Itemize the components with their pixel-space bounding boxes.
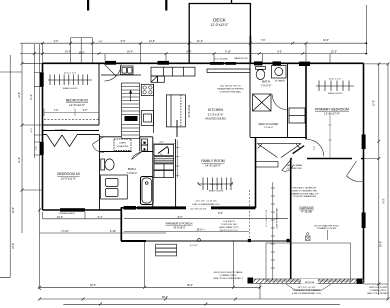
svg-text:3'-0": 3'-0" <box>314 146 316 151</box>
svg-text:41'-0": 41'-0" <box>197 40 203 43</box>
svg-text:DECK: DECK <box>213 18 227 23</box>
svg-text:8'-0": 8'-0" <box>178 216 183 219</box>
svg-text:SHELF & ROD: SHELF & ROD <box>63 88 78 90</box>
svg-text:7'-0"x9'-0": 7'-0"x9'-0" <box>126 172 137 175</box>
svg-text:60'-0": 60'-0" <box>162 296 168 299</box>
svg-text:EGRESS 8400 B: EGRESS 8400 B <box>59 213 75 215</box>
svg-text:12'-0"x12'-0": 12'-0"x12'-0" <box>211 23 229 27</box>
svg-text:LINE OF BREEZEWAY: LINE OF BREEZEWAY <box>276 207 279 228</box>
svg-text:FAMILY ROOM: FAMILY ROOM <box>201 159 224 163</box>
svg-text:24'-0": 24'-0" <box>12 207 15 213</box>
svg-text:36'-0" +-: 36'-0" +- <box>197 229 206 232</box>
svg-text:(LINE OF BREEZEWAY O.H.): (LINE OF BREEZEWAY O.H.) <box>292 292 321 295</box>
svg-text:CASE TO REAR: CASE TO REAR <box>286 164 303 167</box>
svg-text:10'-0": 10'-0" <box>78 52 84 55</box>
svg-text:16'-4": 16'-4" <box>127 51 133 54</box>
svg-text:LINEN: LINEN <box>119 143 126 145</box>
svg-text:(2) 1 3/4"x14" LVL: (2) 1 3/4"x14" LVL <box>190 209 207 211</box>
svg-text:36" VANITY: 36" VANITY <box>275 79 286 82</box>
svg-text:7'-6"x7'-0": 7'-6"x7'-0" <box>261 84 272 87</box>
svg-text:(SEE "POLE DETAIL"): (SEE "POLE DETAIL") <box>367 292 389 295</box>
svg-text:42'-0"x8'-0": 42'-0"x8'-0" <box>173 226 185 229</box>
svg-text:4'-0": 4'-0" <box>31 128 33 133</box>
svg-text:BARN DOOR: BARN DOOR <box>234 57 248 60</box>
svg-text:3'-0": 3'-0" <box>83 109 88 112</box>
svg-text:OVERSIZED 9'X8' FRAMED: OVERSIZED 9'X8' FRAMED <box>293 289 321 292</box>
svg-text:TOWARDS DOORS: TOWARDS DOORS <box>317 227 337 230</box>
svg-text:14'-0": 14'-0" <box>65 51 71 54</box>
svg-text:12'-6": 12'-6" <box>18 92 21 98</box>
svg-text:7'-6": 7'-6" <box>54 109 59 112</box>
svg-text:SHARED HOUSE WALL UP: SHARED HOUSE WALL UP <box>291 192 319 195</box>
svg-text:-13'-1 1/2" + 4'-10 1/2"-: -13'-1 1/2" + 4'-10 1/2"- <box>195 201 218 203</box>
svg-text:5 SHELVES: 5 SHELVES <box>117 146 129 148</box>
svg-text:5'-4": 5'-4" <box>98 216 103 219</box>
svg-text:PROVIDE 1 LAYER 5/8": PROVIDE 1 LAYER 5/8" <box>293 187 317 190</box>
svg-text:22'-0": 22'-0" <box>331 51 337 54</box>
svg-text:(2) 1 3/4"x11 7/8" LVL: (2) 1 3/4"x11 7/8" LVL <box>220 86 242 88</box>
svg-text:4'-1 1/2": 4'-1 1/2" <box>190 245 198 247</box>
svg-text:2'-8": 2'-8" <box>36 146 38 151</box>
svg-text:8'-0": 8'-0" <box>277 51 282 54</box>
svg-text:BEDROOM #3: BEDROOM #3 <box>57 172 79 176</box>
svg-text:AZEK WRAP (TYP): AZEK WRAP (TYP) <box>219 226 238 229</box>
svg-text:CLOSET: CLOSET <box>55 128 66 132</box>
svg-text:9'-0": 9'-0" <box>383 198 386 203</box>
svg-text:HEADER ABOVE RIPPED: HEADER ABOVE RIPPED <box>218 88 244 91</box>
svg-text:11'-1 1/2" x 8'-1 1/2": 11'-1 1/2" x 8'-1 1/2" <box>266 209 268 227</box>
svg-text:L (4) 6X6 PT: L (4) 6X6 PT <box>223 221 236 223</box>
svg-text:4'-10": 4'-10" <box>225 51 231 54</box>
svg-text:(SEE "POLE DOWN DETAIL"): (SEE "POLE DOWN DETAIL") <box>213 277 243 280</box>
svg-text:BATH: BATH <box>128 167 136 171</box>
svg-text:4'-6": 4'-6" <box>98 41 103 43</box>
svg-text:8'-0": 8'-0" <box>218 212 223 215</box>
svg-text:36'-0": 36'-0" <box>187 284 193 287</box>
svg-text:4" SLAB: 4" SLAB <box>301 209 312 213</box>
svg-text:30'-0": 30'-0" <box>90 284 96 287</box>
svg-text:FARMER'S PORCH: FARMER'S PORCH <box>166 222 193 226</box>
svg-text:12'-0" x 2'-0": 12'-0" x 2'-0" <box>64 73 76 75</box>
svg-text:SHELF & ROD: SHELF & ROD <box>209 191 224 193</box>
svg-text:12'-0"x11'-6": 12'-0"x11'-6" <box>61 177 76 181</box>
svg-text:GWB "X" FINISHED THE: GWB "X" FINISHED THE <box>292 190 317 192</box>
svg-text:11'-0": 11'-0" <box>30 94 33 100</box>
svg-text:14'-6" x 2'-0": 14'-6" x 2'-0" <box>210 184 222 186</box>
svg-text:NOTE B4: NOTE B4 <box>305 282 315 284</box>
svg-text:POSTS W/ 1X8: POSTS W/ 1X8 <box>221 224 237 226</box>
svg-text:12'-0"x12'-6": 12'-0"x12'-6" <box>69 103 85 107</box>
svg-text:14'-6"x18'-0": 14'-6"x18'-0" <box>205 164 221 168</box>
svg-text:6'-0" SLIDER: 6'-0" SLIDER <box>215 58 228 60</box>
svg-text:7'-6": 7'-6" <box>261 39 266 42</box>
svg-text:15'-6" x 2'-0": 15'-6" x 2'-0" <box>329 79 341 81</box>
svg-text:CORNER (2X10): CORNER (2X10) <box>370 290 387 292</box>
svg-text:21'-0"x13'-6": 21'-0"x13'-6" <box>208 113 224 117</box>
svg-text:LINE OF BREEZEWAY O.H.: LINE OF BREEZEWAY O.H. <box>192 203 220 206</box>
svg-text:11'-6": 11'-6" <box>18 157 21 163</box>
svg-text:OF BEDROOM: OF BEDROOM <box>287 168 302 170</box>
svg-text:BATH: BATH <box>262 80 270 84</box>
svg-text:6'-0": 6'-0" <box>187 51 192 54</box>
svg-text:6X6 POLE DOWN TO TABLE: 6X6 POLE DOWN TO TABLE <box>214 271 243 274</box>
svg-text:10'-0": 10'-0" <box>12 243 15 249</box>
svg-text:KITCHEN: KITCHEN <box>208 108 223 112</box>
svg-text:TO ROOF SHEATHING: TO ROOF SHEATHING <box>293 195 316 198</box>
svg-text:VAULTED CEILING: VAULTED CEILING <box>205 118 226 121</box>
svg-text:14'-6": 14'-6" <box>149 40 155 43</box>
svg-text:4'-0": 4'-0" <box>54 40 59 43</box>
svg-text:-16'-1 1/2" x 4'-1/2"-: -16'-1 1/2" x 4'-1/2"- <box>297 287 316 289</box>
svg-text:7'-0"x6'-0": 7'-0"x6'-0" <box>264 127 274 129</box>
svg-text:SHELF & ROD: SHELF & ROD <box>328 93 343 95</box>
svg-text:WALK-IN CLOSET: WALK-IN CLOSET <box>258 123 279 126</box>
svg-text:6X6 POLE DOWN: 6X6 POLE DOWN <box>369 287 387 289</box>
svg-text:CORNER (2X10): CORNER (2X10) <box>220 275 237 277</box>
svg-text:10'-6": 10'-6" <box>323 39 329 42</box>
svg-text:4'-6": 4'-6" <box>159 142 164 144</box>
svg-text:BEDROOM #2: BEDROOM #2 <box>66 99 88 103</box>
svg-text:12'-0"x17'-8": 12'-0"x17'-8" <box>324 112 340 116</box>
svg-text:17'-10": 17'-10" <box>61 230 69 233</box>
svg-text:5'-6": 5'-6" <box>121 40 126 43</box>
svg-text:6'-10": 6'-10" <box>110 230 116 233</box>
svg-text:27'-0": 27'-0" <box>373 100 376 106</box>
svg-text:DOWN IN THIS WALL: DOWN IN THIS WALL <box>220 91 243 94</box>
svg-text:PITCH SLAB FOR POST: PITCH SLAB FOR POST <box>314 224 339 227</box>
svg-text:10'-0": 10'-0" <box>57 216 63 219</box>
svg-text:24'-0": 24'-0" <box>380 241 383 247</box>
svg-text:(9' ISLAND): (9' ISLAND) <box>188 104 191 117</box>
